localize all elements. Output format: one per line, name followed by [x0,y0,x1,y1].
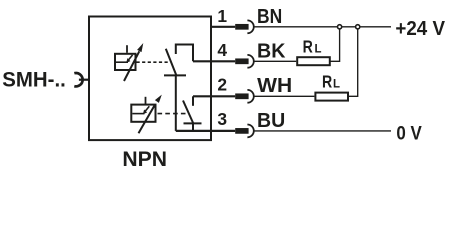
contact K1 (NO switch) [164,45,193,76]
trimmer arrow of B2 [139,95,162,134]
resistor RL2 [315,93,348,101]
pin 4 plug [235,58,248,64]
pin 4 wire [193,60,235,62]
pin 3 socket [247,125,253,138]
svg-text:+24 V: +24 V [395,17,445,40]
svg-text:2: 2 [217,74,227,94]
svg-text:BU: BU [257,110,285,132]
svg-text:NPN: NPN [122,148,167,171]
svg-text:L: L [333,77,340,91]
sensing element B1 [115,45,136,70]
wire socket to box [79,79,90,81]
sensor body box SMH [89,17,211,141]
wire WH to RL2 [254,95,315,97]
dashed actuation link B1 to contact K1 [137,61,170,63]
contact K2 (NO switch) [183,96,202,131]
wire RL1 to +24V junction [330,29,340,61]
svg-text:3: 3 [217,109,227,129]
wire BN to +24V [254,26,391,28]
svg-text:R: R [303,36,314,56]
svg-text:L: L [315,42,322,56]
pin 1 plug [235,24,248,30]
wire BK to RL1 [254,60,296,62]
pin 2 wire [193,95,235,97]
pin 1 socket [247,20,253,33]
dashed actuation link B2 to contact K2 [158,113,188,115]
sensing element B2 [131,97,155,122]
svg-text:SMH-..: SMH-.. [2,68,66,92]
pin 3 plug [235,128,248,134]
wire RL2 to +24V junction [348,29,358,96]
svg-text:BN: BN [257,6,282,28]
pin 4 socket [247,55,253,68]
svg-text:0 V: 0 V [396,123,421,145]
svg-text:4: 4 [217,40,227,60]
junction node on +24V [338,25,342,29]
junction node on +24V [356,25,360,29]
svg-text:WH: WH [257,75,292,97]
pin 3 wire / 0V rail inside box [176,130,235,132]
trimmer arrow of B1 [124,43,143,81]
pin 2 socket [247,90,253,103]
svg-text:R: R [322,72,333,92]
wire BU to 0V [254,130,391,132]
wire K1 to 0V rail [175,75,177,130]
svg-text:1: 1 [217,6,227,26]
svg-text:BK: BK [257,41,286,63]
pin 2 plug [235,93,248,99]
cable socket at sensor left [74,73,82,86]
pin 1 wire [210,26,235,28]
resistor RL1 [297,57,330,65]
